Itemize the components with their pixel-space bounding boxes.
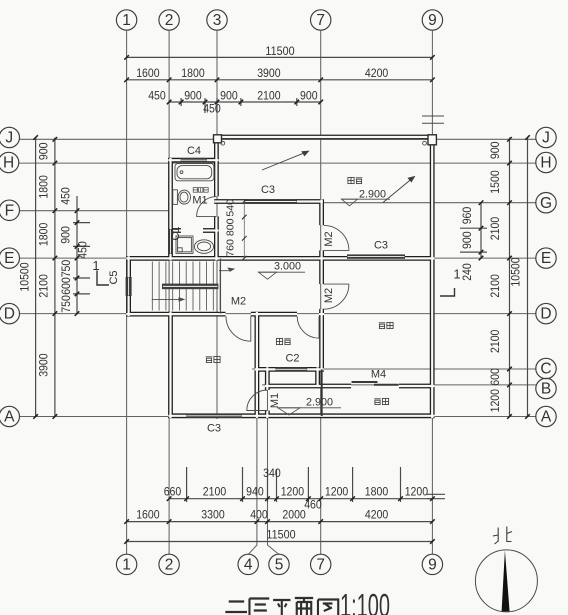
wall g7 between doors bbox=[319, 250, 324, 284]
svg-text:M1: M1 bbox=[269, 393, 281, 408]
svg-text:9: 9 bbox=[428, 557, 437, 574]
gridline H horizontal bbox=[19, 162, 536, 164]
svg-text:4: 4 bbox=[244, 557, 253, 574]
svg-text:1600: 1600 bbox=[136, 507, 160, 521]
terrace slope arrow large bbox=[383, 177, 415, 203]
svg-text:10500: 10500 bbox=[509, 257, 523, 286]
svg-text:3300: 3300 bbox=[201, 507, 225, 521]
svg-text:J: J bbox=[5, 130, 13, 147]
svg-text:1200: 1200 bbox=[488, 389, 502, 413]
svg-text:2100: 2100 bbox=[37, 274, 51, 298]
right overall ticks bbox=[525, 135, 530, 140]
GRIDLINES bbox=[19, 31, 536, 555]
svg-text:900: 900 bbox=[300, 88, 318, 102]
stair treads bbox=[152, 262, 220, 311]
axis circle 3 top bbox=[207, 10, 227, 30]
svg-text:340: 340 bbox=[263, 466, 281, 480]
top row3 extension lines bbox=[180, 98, 182, 106]
break mark at gridline 9 top bbox=[422, 116, 444, 123]
bottom rowA line bbox=[169, 498, 432, 500]
wall g2 room-left left bbox=[168, 312, 173, 418]
bottom rowB line bbox=[127, 521, 433, 523]
axis circle C right bbox=[536, 358, 556, 378]
gridline A horizontal bbox=[19, 416, 536, 418]
svg-text:900: 900 bbox=[460, 231, 474, 249]
axis circle 7 top bbox=[311, 10, 331, 30]
gridline 1 vertical bbox=[126, 31, 128, 555]
washing machine bbox=[176, 236, 193, 253]
gridline G horizontal bbox=[215, 202, 536, 204]
axis circle A right bbox=[536, 406, 556, 426]
svg-text:C3: C3 bbox=[261, 184, 275, 196]
svg-text:2: 2 bbox=[165, 12, 174, 29]
label 北 drawn strokes bbox=[493, 527, 512, 545]
axis circle 4 bottom bbox=[238, 554, 258, 574]
interior dim line 540/800/760 bbox=[243, 202, 245, 259]
label 卫生间 (3 tiny glyphs) bbox=[193, 188, 208, 193]
rowC ticks bbox=[124, 539, 129, 544]
wall g3 upper (J to M1 opening) bbox=[214, 135, 219, 196]
top row1 line 11500 bbox=[127, 56, 433, 58]
svg-text:D: D bbox=[4, 306, 15, 323]
svg-text:1:100: 1:100 bbox=[340, 588, 390, 615]
north needle bbox=[502, 550, 510, 611]
svg-text:1: 1 bbox=[122, 12, 131, 29]
wash basin oval bbox=[194, 240, 213, 254]
right col main line bbox=[509, 138, 511, 417]
axis circle J left bbox=[0, 127, 20, 147]
axis circle F left bbox=[0, 200, 20, 220]
label 阳台 bbox=[374, 399, 381, 405]
svg-text:760: 760 bbox=[226, 239, 237, 257]
svg-text:450: 450 bbox=[148, 88, 166, 102]
svg-text:450: 450 bbox=[203, 102, 221, 116]
axis circle 2 bottom bbox=[159, 554, 179, 574]
svg-text:3.000: 3.000 bbox=[274, 261, 301, 273]
row1 ticks bbox=[124, 55, 129, 60]
label 房间 right bbox=[379, 323, 386, 329]
svg-text:750: 750 bbox=[59, 295, 73, 313]
svg-text:D: D bbox=[540, 306, 551, 323]
svg-text:600: 600 bbox=[488, 368, 502, 386]
svg-text:2.900: 2.900 bbox=[306, 396, 333, 408]
svg-text:11500: 11500 bbox=[266, 527, 295, 541]
svg-text:1500: 1500 bbox=[488, 170, 502, 194]
level marker 2.900 balcony bbox=[277, 408, 341, 415]
title char 面 bbox=[295, 598, 313, 615]
bathtub bbox=[175, 164, 214, 181]
axis circle 9 bottom bbox=[422, 554, 442, 574]
wall g2 bathroom left bbox=[168, 158, 173, 260]
right col inner line bbox=[480, 203, 482, 258]
svg-text:4200: 4200 bbox=[365, 66, 389, 80]
title char 二 bbox=[225, 602, 247, 613]
WINDOWS dark bands bbox=[126, 158, 405, 418]
label 房间 left bbox=[206, 357, 213, 363]
DOORS bbox=[197, 197, 349, 411]
gridline F horizontal bbox=[19, 210, 172, 212]
axis circle D left bbox=[0, 303, 20, 323]
svg-text:E: E bbox=[4, 250, 14, 267]
svg-text:450: 450 bbox=[76, 241, 90, 259]
svg-text:2100: 2100 bbox=[488, 329, 502, 353]
window C5 in wall g1 bbox=[126, 277, 132, 296]
right col overall line bbox=[527, 138, 529, 417]
svg-text:960: 960 bbox=[460, 206, 474, 224]
axis circle 1 top bbox=[116, 10, 136, 30]
wall H bathroom top bbox=[168, 158, 218, 163]
wall A bottom outer bbox=[168, 413, 434, 418]
stair middle rail dark band bbox=[162, 284, 218, 290]
axis circle 9 top bbox=[422, 10, 442, 30]
svg-text:900: 900 bbox=[220, 88, 238, 102]
wall C with C2 window bbox=[255, 367, 324, 372]
terrace corner column left bbox=[214, 135, 222, 143]
wall D segment 2 bbox=[251, 312, 297, 317]
svg-text:1800: 1800 bbox=[181, 66, 205, 80]
svg-text:B: B bbox=[541, 381, 551, 398]
gridline 3 vertical bbox=[216, 31, 218, 419]
TITLE bbox=[225, 598, 338, 615]
svg-text:A: A bbox=[541, 409, 552, 426]
gridline 2 vertical bbox=[168, 31, 170, 555]
gridline C horizontal bbox=[252, 368, 536, 370]
svg-text:1600: 1600 bbox=[136, 66, 160, 80]
svg-text:11500: 11500 bbox=[265, 44, 294, 58]
section marker 1 right bbox=[440, 288, 455, 296]
svg-text:C4: C4 bbox=[187, 145, 201, 157]
axis circle 5 bottom bbox=[269, 554, 289, 574]
wall J terrace top bbox=[214, 135, 435, 140]
top row3 line bbox=[169, 101, 321, 103]
wall g3 lower (M1 opening to E) bbox=[214, 216, 219, 260]
stair up arrow lower bbox=[152, 268, 234, 301]
DIMENSION TICKS bbox=[33, 55, 530, 544]
terrace corner column right bbox=[428, 135, 436, 145]
axis circle H left bbox=[0, 152, 19, 172]
svg-text:A: A bbox=[4, 409, 15, 426]
left inner ticks bbox=[75, 208, 80, 213]
right end double mark of rowA bbox=[427, 493, 445, 495]
svg-text:1200: 1200 bbox=[325, 484, 349, 498]
svg-text:C5: C5 bbox=[108, 270, 120, 284]
row2 ticks bbox=[124, 78, 129, 83]
wall E full bbox=[126, 256, 434, 261]
wall jog C to B near g7 bbox=[315, 367, 320, 386]
gridline E horizontal bbox=[19, 257, 536, 259]
right inner ticks bbox=[479, 200, 484, 205]
svg-text:7: 7 bbox=[316, 12, 325, 29]
north circle bbox=[475, 550, 537, 612]
svg-text:H: H bbox=[540, 155, 551, 172]
left col main line bbox=[54, 138, 56, 417]
STAIRS bbox=[152, 262, 220, 311]
svg-text:540: 540 bbox=[226, 199, 237, 217]
svg-text:J: J bbox=[542, 130, 550, 147]
wall g7 below lower M2 door bbox=[319, 309, 324, 371]
svg-text:800: 800 bbox=[226, 218, 237, 236]
svg-text:G: G bbox=[540, 195, 552, 212]
axis circle A left bbox=[0, 406, 20, 426]
wall g1 stair left bbox=[126, 256, 131, 316]
door M1 bathroom: arc + leaf bbox=[197, 197, 217, 217]
level texts bbox=[274, 188, 386, 408]
svg-text:750: 750 bbox=[59, 259, 73, 277]
wall B with M4 opening bbox=[265, 384, 351, 389]
left col overall line bbox=[35, 138, 37, 417]
DIMENSION LINES bbox=[36, 57, 528, 541]
svg-text:C1: C1 bbox=[170, 226, 182, 240]
svg-text:C2: C2 bbox=[285, 353, 299, 365]
window C1 in wall g2 bbox=[168, 229, 173, 254]
svg-text:4200: 4200 bbox=[365, 507, 389, 521]
gridline B horizontal bbox=[262, 384, 536, 386]
WALLS black outer bbox=[126, 135, 434, 418]
axis circle H right bbox=[536, 152, 556, 172]
svg-text:F: F bbox=[5, 202, 14, 219]
svg-text:240: 240 bbox=[460, 263, 474, 281]
svg-text:600: 600 bbox=[59, 277, 73, 295]
DIMENSION TEXTS bottom bbox=[136, 466, 428, 541]
NORTH ARROW bbox=[475, 527, 537, 612]
svg-text:1: 1 bbox=[92, 258, 99, 273]
svg-text:900: 900 bbox=[59, 226, 73, 244]
left main ticks bbox=[53, 137, 58, 142]
svg-text:400: 400 bbox=[250, 507, 268, 521]
svg-text:2.900: 2.900 bbox=[359, 188, 386, 200]
svg-text:3900: 3900 bbox=[37, 353, 51, 377]
svg-text:H: H bbox=[3, 155, 14, 172]
axis circle 7 bottom bbox=[311, 554, 331, 574]
bottom rowA extension lines bbox=[186, 467, 188, 502]
axis circle B right bbox=[536, 378, 556, 398]
svg-text:2100: 2100 bbox=[203, 484, 227, 498]
bottom rowC line 11500 bbox=[127, 541, 433, 543]
svg-text:900: 900 bbox=[184, 88, 202, 102]
svg-text:C3: C3 bbox=[207, 423, 221, 435]
wall D segment 3 bbox=[319, 312, 324, 317]
svg-text:2100: 2100 bbox=[488, 217, 502, 241]
top row2 line bbox=[127, 79, 433, 81]
axis circle G right bbox=[536, 193, 556, 213]
gridline 5 vertical with slanted leader bbox=[268, 371, 280, 555]
svg-text:1800: 1800 bbox=[365, 484, 389, 498]
level marker 2.900 terrace bbox=[341, 199, 390, 206]
bathroom divider wall right stub bbox=[203, 228, 219, 233]
bathroom divider wall left stub bbox=[168, 228, 181, 233]
row3 ticks bbox=[167, 100, 172, 105]
level marker 3.000 hall bbox=[258, 272, 305, 279]
svg-text:M2: M2 bbox=[323, 231, 335, 246]
window C3 in wall G bbox=[244, 199, 297, 203]
svg-text:900: 900 bbox=[488, 141, 502, 159]
svg-text:460: 460 bbox=[304, 498, 322, 512]
wall B right part bbox=[399, 384, 435, 389]
gridline J horizontal bbox=[19, 138, 536, 140]
svg-text:2000: 2000 bbox=[282, 507, 306, 521]
svg-text:10500: 10500 bbox=[18, 262, 32, 291]
svg-text:2: 2 bbox=[165, 557, 174, 574]
DIMENSION TEXTS left rotated bbox=[18, 142, 90, 377]
window C3 in wall E bbox=[347, 254, 405, 258]
wall g9 right outer bbox=[430, 135, 435, 418]
svg-text:1800: 1800 bbox=[37, 175, 51, 199]
svg-text:1200: 1200 bbox=[281, 484, 305, 498]
svg-text:C: C bbox=[540, 361, 551, 378]
svg-text:1: 1 bbox=[453, 267, 460, 282]
gridline 4 vertical with slanted leader bbox=[248, 316, 257, 555]
svg-text:M4: M4 bbox=[371, 369, 386, 381]
left inner extension lines bbox=[73, 222, 90, 224]
title char 平 bbox=[273, 600, 290, 615]
svg-text:7: 7 bbox=[316, 557, 325, 574]
svg-text:2100: 2100 bbox=[257, 88, 281, 102]
axis circle D right bbox=[536, 303, 556, 323]
wall g5 upper bbox=[265, 367, 270, 390]
wall g7 G to M2 door bbox=[319, 199, 324, 225]
stair right edge line bbox=[220, 258, 222, 313]
svg-text:1: 1 bbox=[122, 557, 131, 574]
svg-text:900: 900 bbox=[37, 142, 51, 160]
svg-text:2100: 2100 bbox=[488, 274, 502, 298]
svg-text:5: 5 bbox=[275, 557, 284, 574]
window C3 in wall A bbox=[186, 414, 242, 418]
gridline 7 vertical bbox=[320, 31, 322, 555]
door M2 lower in wall g7 to room bbox=[324, 284, 349, 309]
balcony divider line at g7 bbox=[321, 369, 323, 416]
DIMENSION TEXTS right rotated bbox=[226, 141, 523, 412]
svg-text:3900: 3900 bbox=[257, 66, 281, 80]
svg-text:1800: 1800 bbox=[37, 222, 51, 246]
window C4 in wall H bbox=[181, 158, 207, 163]
rowA ticks bbox=[167, 496, 172, 501]
section marker 1 left bbox=[97, 271, 109, 286]
window C2 in wall C bbox=[276, 367, 308, 371]
roof drain circle right bbox=[423, 141, 427, 145]
stair up arrow top exit bbox=[219, 270, 229, 272]
wall g5 lower stub bbox=[265, 411, 270, 419]
label 贮藏 bbox=[276, 338, 282, 344]
gridline 9 vertical bbox=[431, 31, 433, 555]
toilet bbox=[173, 190, 191, 205]
axis circle E right bbox=[536, 248, 556, 268]
wall D segment 1 bbox=[126, 312, 225, 317]
svg-text:E: E bbox=[541, 250, 551, 267]
axis circle J right bbox=[536, 127, 556, 147]
left overall ticks bbox=[33, 135, 38, 140]
svg-text:M1: M1 bbox=[192, 195, 207, 207]
left col inner line bbox=[76, 196, 78, 314]
door M2 upper in wall g7 to terrace bbox=[324, 225, 349, 250]
svg-text:M2: M2 bbox=[231, 296, 246, 308]
label 露台 bbox=[348, 177, 354, 183]
svg-text:1200: 1200 bbox=[405, 484, 429, 498]
svg-text:3: 3 bbox=[213, 12, 222, 29]
sliding door M4 two panels bbox=[352, 382, 399, 385]
title char 层 bbox=[249, 599, 269, 615]
roof drain circle left bbox=[221, 141, 225, 145]
svg-text:660: 660 bbox=[164, 484, 182, 498]
right main ticks bbox=[507, 137, 512, 142]
svg-text:9: 9 bbox=[428, 12, 437, 29]
rowB ticks bbox=[124, 519, 129, 524]
wall G with C3 window bbox=[214, 199, 323, 204]
title char 图 bbox=[318, 600, 338, 615]
WALLS white core bbox=[126, 135, 434, 418]
DIMENSION TEXTS top bbox=[136, 44, 388, 116]
door M2 stairs in wall D: leaf + arc bbox=[226, 316, 251, 341]
axis circle E left bbox=[0, 248, 20, 268]
wall g4 bbox=[254, 312, 259, 418]
door to storage room in wall D bbox=[297, 316, 319, 338]
terrace slope arrow small bbox=[262, 151, 309, 170]
axis circle 2 top bbox=[159, 10, 179, 30]
door M1 balcony in wall g5 bbox=[247, 390, 267, 411]
svg-text:940: 940 bbox=[246, 484, 264, 498]
svg-text:450: 450 bbox=[59, 187, 73, 205]
svg-text:C3: C3 bbox=[374, 240, 388, 252]
PLAN TEXT LABELS bbox=[92, 145, 460, 435]
svg-text:M2: M2 bbox=[323, 288, 335, 303]
axis circle 1 bottom bbox=[116, 554, 136, 574]
gridline D horizontal bbox=[19, 313, 536, 315]
